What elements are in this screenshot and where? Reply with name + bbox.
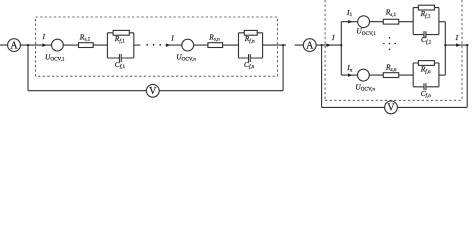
capacitor C_f,1 plates <box>119 54 121 62</box>
wire bottom rail <box>322 106 468 108</box>
resistor R_f,n (branch n) <box>418 61 434 66</box>
node junction input <box>321 44 323 46</box>
capacitor C_f,n plates <box>249 54 251 62</box>
RC pair n frame <box>239 33 263 58</box>
capacitor C_f,1 plates (branch 1) <box>424 31 426 38</box>
RC pair 1 frame (branch 1) <box>413 8 439 35</box>
svg-text:I: I <box>42 32 46 41</box>
wire right vertical outer <box>466 45 468 107</box>
wire output <box>445 44 468 46</box>
branch n exit <box>439 74 445 76</box>
svg-text:V: V <box>149 86 157 97</box>
current arrow I_1 <box>348 20 353 24</box>
resistor R_s,1 <box>79 43 94 48</box>
svg-text:A: A <box>10 40 18 51</box>
ammeter A1 <box>8 39 21 52</box>
node junction left <box>27 44 29 46</box>
branch n wire <box>341 74 413 76</box>
current arrow I output <box>456 43 461 47</box>
current arrow I (section n) <box>166 43 171 47</box>
capacitor C_f,n plates (branch n) <box>424 83 426 90</box>
voltage source U_OCV,1 <box>52 39 64 51</box>
ellipsis dots <box>146 44 161 46</box>
current arrow I input <box>327 43 332 47</box>
svg-text:I: I <box>170 33 174 42</box>
node junction left bus <box>340 44 342 46</box>
wire right vertical <box>282 45 284 91</box>
voltmeter V1 <box>146 84 159 97</box>
branch 1 exit <box>439 21 445 23</box>
wire input <box>295 44 342 46</box>
bus right <box>444 22 446 75</box>
wire stub after RC1 <box>134 44 141 46</box>
wire bottom rail <box>28 90 283 92</box>
svg-text:A: A <box>306 40 314 51</box>
svg-text:I: I <box>455 33 459 42</box>
wire section n <box>166 44 239 46</box>
voltmeter V2 <box>385 101 398 114</box>
wire left vertical outer <box>321 45 323 107</box>
wire exit to corner <box>263 44 286 46</box>
resistor R_s,n (branch n) <box>383 73 398 78</box>
voltage source U_OCV,1 (branch 1) <box>358 16 370 28</box>
resistor R_f,1 (branch 1) <box>418 5 434 10</box>
voltage source U_OCV,n (branch n) <box>358 69 370 81</box>
node junction output <box>466 44 468 46</box>
svg-text:I: I <box>331 33 335 42</box>
bus left <box>340 22 342 75</box>
current arrow I_n <box>348 73 353 77</box>
node junction right <box>282 44 284 46</box>
resistor R_s,1 (branch 1) <box>383 19 398 24</box>
RC pair n frame (branch n) <box>413 63 439 87</box>
wire main top left <box>0 44 107 46</box>
dashed model box (left) <box>36 17 278 76</box>
node junction right bus <box>444 44 446 46</box>
resistor R_f,n <box>244 30 257 35</box>
voltage source U_OCV,n <box>182 39 194 51</box>
ammeter A2 <box>303 39 316 52</box>
wire left vertical <box>27 45 29 91</box>
dashed model box (right, top cropped) <box>325 0 462 100</box>
current arrow I (section 1) <box>42 43 47 47</box>
resistor R_f,1 <box>113 30 129 35</box>
dots grid (more branches / elements) <box>383 37 396 50</box>
RC pair 1 frame <box>107 33 133 58</box>
svg-text:V: V <box>387 103 395 114</box>
resistor R_s,n <box>208 43 223 48</box>
branch 1 wire <box>341 21 413 23</box>
